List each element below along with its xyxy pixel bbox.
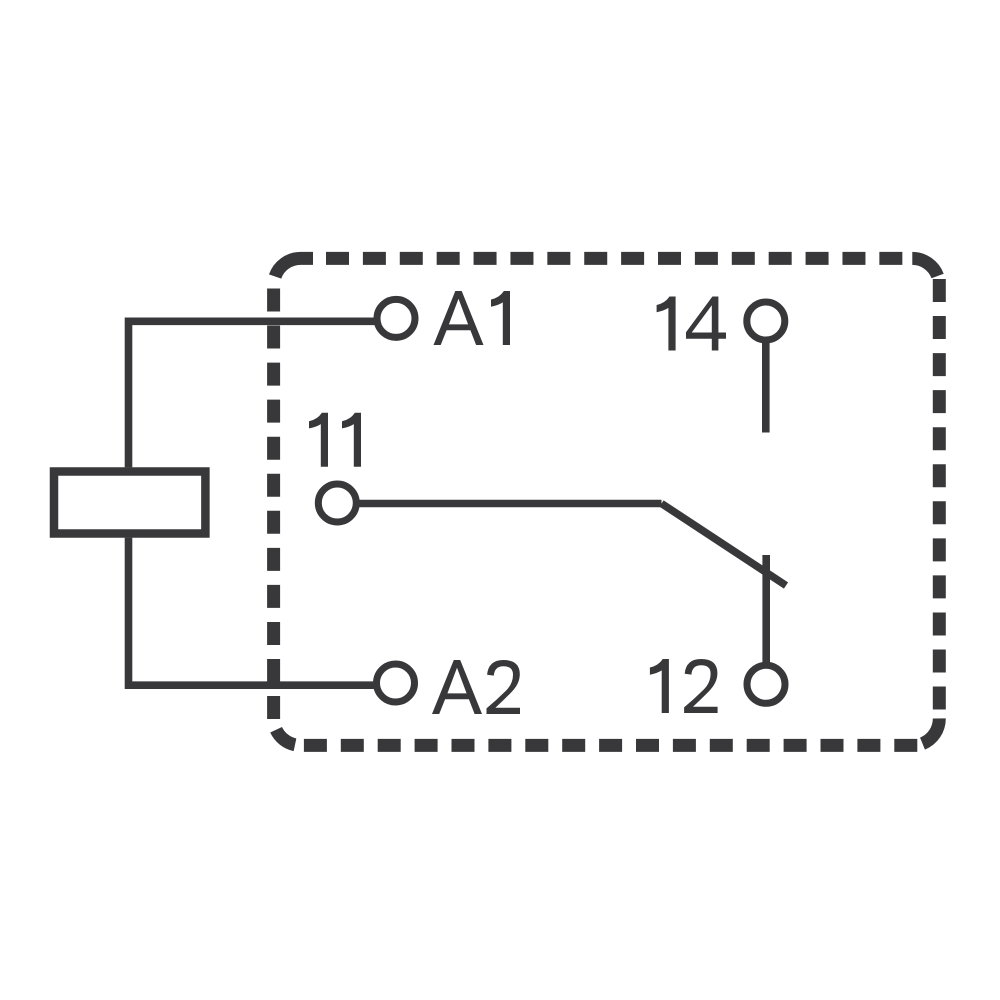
pin 12 lead <box>762 555 770 664</box>
terminal A2 circle <box>377 664 415 702</box>
relay outline: bottom-left corner arc <box>276 730 295 745</box>
wire switch common from 11 <box>358 500 662 508</box>
label 11 <box>309 413 361 467</box>
relay outline: bottom-right corner arc <box>923 718 940 743</box>
wire coil bottom to A2 <box>129 538 375 686</box>
label 14 <box>657 297 726 351</box>
coil K1 <box>54 472 205 534</box>
terminal 11 circle <box>318 484 356 522</box>
pin 14 lead <box>762 342 770 433</box>
relay outline: bottom dashed edge <box>304 739 918 752</box>
switch arm diagonal <box>662 504 787 586</box>
terminal 12 circle <box>747 665 785 703</box>
relay outline: top-right corner arc <box>912 258 937 276</box>
relay outline: top dashed edge <box>326 252 902 265</box>
wire coil top to A1 <box>129 321 376 467</box>
terminal A1 circle <box>377 299 415 337</box>
relay outline: top-left corner arc <box>275 258 313 276</box>
relay outline: right dashed edge <box>933 279 946 710</box>
terminal 14 circle <box>747 302 785 340</box>
label A2 <box>432 660 520 714</box>
relay outline: left dashed edge <box>267 289 280 720</box>
label 12 <box>650 659 718 713</box>
label A1 <box>434 291 511 345</box>
